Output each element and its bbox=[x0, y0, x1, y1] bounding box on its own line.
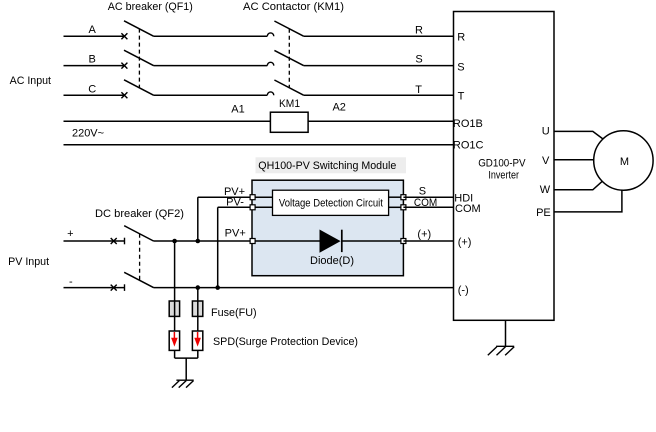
svg-text:S: S bbox=[415, 54, 422, 66]
junction dot + wire / PV+ bbox=[196, 239, 201, 244]
svg-text:A2: A2 bbox=[332, 101, 345, 113]
wire phase A to inverter R bbox=[304, 35, 454, 37]
inverter ground stem bbox=[505, 320, 507, 346]
terminal square S right bbox=[401, 195, 406, 200]
wire + to module bbox=[154, 240, 253, 242]
breaker QF2 pole- tick bbox=[124, 284, 126, 291]
svg-text:RO1B: RO1B bbox=[453, 118, 483, 130]
terminal square (+) right bbox=[401, 239, 406, 244]
wire branch PV- down bbox=[217, 207, 219, 287]
wire 220V neutral to inverter RO1C bbox=[64, 144, 454, 146]
svg-text:A: A bbox=[89, 24, 97, 36]
wire S to inverter HDI bbox=[403, 196, 453, 198]
terminal square PV+ left bbox=[250, 195, 255, 200]
wire through fuse1 to SPD1 bbox=[174, 241, 176, 331]
svg-text:SPD(Surge Protection Device): SPD(Surge Protection Device) bbox=[213, 336, 358, 348]
breaker QF2 pole+ contact x bbox=[111, 238, 117, 244]
wire phase C to inverter T bbox=[304, 94, 454, 96]
svg-text:RO1C: RO1C bbox=[453, 139, 484, 151]
fuse FU2 bbox=[192, 301, 202, 316]
diode D triangle bbox=[320, 230, 341, 253]
wire U to motor bbox=[554, 131, 604, 140]
wire branch PV+ up bbox=[197, 197, 199, 241]
wire phase A input bbox=[64, 35, 125, 37]
svg-text:KM1: KM1 bbox=[279, 98, 300, 110]
breaker QF2 pole+ blade bbox=[124, 226, 153, 241]
module title background bbox=[256, 157, 407, 173]
svg-text:PE: PE bbox=[536, 207, 551, 219]
junction dot - wire / PV- bbox=[215, 285, 220, 290]
svg-text:Inverter: Inverter bbox=[488, 169, 519, 181]
motor M circle bbox=[594, 131, 653, 190]
svg-text:220V~: 220V~ bbox=[72, 127, 104, 139]
breaker QF1 linkage dashed line bbox=[138, 29, 140, 88]
svg-text:T: T bbox=[458, 90, 465, 102]
wire PV- to module bbox=[218, 206, 252, 208]
wire phase A to contactor bbox=[154, 35, 268, 37]
wire phase C input bbox=[64, 94, 125, 96]
wire diode anode internal bbox=[252, 240, 320, 242]
breaker QF1 pole C blade bbox=[124, 80, 154, 95]
wire module COM internal bbox=[389, 206, 404, 208]
terminal square PV- left bbox=[250, 205, 255, 210]
svg-text:DC breaker (QF2): DC breaker (QF2) bbox=[95, 208, 184, 220]
svg-text:PV Input: PV Input bbox=[8, 256, 49, 268]
contactor KM1 pole B blade bbox=[274, 50, 303, 65]
wire phase C to contactor bbox=[154, 94, 268, 96]
svg-text:(-): (-) bbox=[458, 285, 469, 297]
junction dot - wire / fuse2 bbox=[196, 285, 201, 290]
wire bus to ground bbox=[185, 358, 187, 380]
wire PV- input bbox=[64, 287, 125, 289]
svg-text:COM: COM bbox=[414, 197, 437, 209]
wire module PV- internal bbox=[252, 206, 273, 208]
wire phase B to inverter S bbox=[304, 65, 454, 67]
breaker QF1 pole A blade bbox=[124, 21, 154, 36]
wire PV+ input bbox=[64, 240, 125, 242]
fuse FU1 bbox=[169, 301, 179, 316]
contactor KM1 pole C blade bbox=[274, 80, 303, 95]
svg-text:C: C bbox=[88, 84, 96, 96]
wire phase B input bbox=[64, 65, 125, 67]
svg-text:GD100-PV: GD100-PV bbox=[478, 158, 526, 170]
contactor KM1 pole A contact arc bbox=[267, 33, 274, 36]
breaker QF2 linkage dashed line bbox=[139, 234, 141, 280]
SPD 2 bbox=[192, 331, 202, 350]
voltage detection circuit box bbox=[273, 190, 389, 215]
wire module S internal bbox=[389, 196, 404, 198]
junction dot + wire / fuse1 bbox=[172, 239, 177, 244]
ground SPD bbox=[172, 380, 194, 387]
svg-text:COM: COM bbox=[455, 203, 481, 215]
svg-text:(+): (+) bbox=[458, 236, 472, 248]
breaker QF1 pole C contact x bbox=[121, 92, 127, 98]
svg-text:-: - bbox=[69, 276, 73, 288]
diode D cathode bar bbox=[341, 230, 343, 252]
svg-text:R: R bbox=[457, 31, 465, 43]
svg-text:(+): (+) bbox=[417, 229, 431, 241]
contactor KM1 linkage dashed line bbox=[288, 29, 290, 88]
contactor KM1 pole B contact arc bbox=[267, 62, 274, 65]
svg-text:Voltage Detection Circuit: Voltage Detection Circuit bbox=[279, 198, 383, 210]
svg-text:+: + bbox=[67, 228, 73, 240]
svg-text:M: M bbox=[620, 156, 629, 168]
breaker QF2 pole- blade bbox=[124, 272, 153, 287]
svg-text:PV-: PV- bbox=[226, 196, 244, 208]
SPD 1 bbox=[169, 331, 179, 350]
svg-text:V: V bbox=[542, 155, 550, 167]
svg-text:AC breaker (QF1): AC breaker (QF1) bbox=[108, 1, 193, 13]
wire diode cathode internal bbox=[342, 240, 403, 242]
svg-text:S: S bbox=[419, 186, 426, 198]
wire SPD bus bbox=[175, 357, 198, 359]
breaker QF2 pole- contact x bbox=[111, 285, 117, 291]
wire SPD1 to bus bbox=[174, 351, 176, 359]
breaker QF2 pole+ tick bbox=[124, 238, 126, 245]
svg-text:W: W bbox=[540, 184, 551, 196]
svg-text:AC Input: AC Input bbox=[10, 75, 51, 87]
contactor KM1 pole C contact arc bbox=[267, 92, 274, 95]
svg-text:Fuse(FU): Fuse(FU) bbox=[211, 307, 257, 319]
wire through fuse2 to SPD2 bbox=[197, 288, 199, 331]
wire COM to inverter COM bbox=[403, 206, 453, 208]
svg-text:PV+: PV+ bbox=[225, 227, 246, 239]
contactor KM1 pole A blade bbox=[274, 21, 303, 36]
wire coil to inverter RO1B bbox=[308, 120, 453, 122]
svg-text:B: B bbox=[89, 54, 96, 66]
module QH100-PV box bbox=[252, 180, 403, 276]
breaker QF1 pole B blade bbox=[124, 50, 154, 65]
inverter GD100-PV box bbox=[454, 12, 555, 321]
breaker QF1 pole B contact x bbox=[121, 63, 127, 69]
wire (+) to inverter bbox=[403, 240, 453, 242]
svg-text:A1: A1 bbox=[231, 103, 244, 115]
terminal square COM right bbox=[401, 205, 406, 210]
svg-text:S: S bbox=[457, 62, 464, 74]
svg-text:U: U bbox=[542, 126, 550, 138]
svg-text:AC Contactor (KM1): AC Contactor (KM1) bbox=[243, 1, 344, 13]
wire PE bbox=[554, 190, 622, 212]
wire PV+ to module bbox=[198, 196, 252, 198]
wire SPD2 to bus bbox=[197, 351, 199, 359]
ground inverter bbox=[488, 346, 514, 355]
svg-text:Diode(D): Diode(D) bbox=[310, 255, 354, 267]
wire 220V live to coil bbox=[64, 120, 271, 122]
wire V to motor bbox=[554, 159, 594, 161]
breaker QF1 pole A contact x bbox=[121, 33, 127, 39]
terminal square PV+ diode left bbox=[250, 239, 255, 244]
wire - to inverter (-) bbox=[154, 287, 454, 289]
svg-text:QH100-PV Switching Module: QH100-PV Switching Module bbox=[258, 160, 396, 172]
svg-text:R: R bbox=[415, 25, 423, 37]
svg-text:T: T bbox=[415, 84, 422, 96]
wire phase B to contactor bbox=[154, 65, 268, 67]
coil KM1 box bbox=[270, 112, 308, 132]
wire module PV+ internal bbox=[252, 196, 273, 198]
wire W to motor bbox=[554, 180, 604, 190]
